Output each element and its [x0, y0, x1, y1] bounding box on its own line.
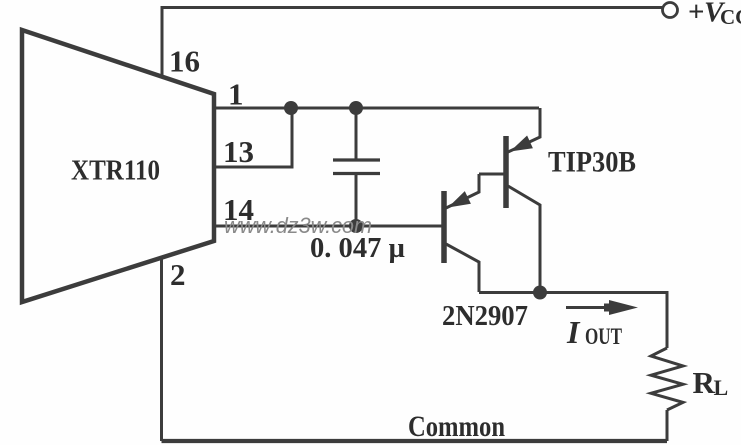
- pin 2 label: [170, 257, 186, 292]
- svg-text:+: +: [688, 0, 705, 28]
- arrow Iout: [566, 300, 638, 315]
- pin 16 label: [169, 44, 200, 79]
- svg-text:R: R: [693, 365, 716, 400]
- svg-text:1: 1: [228, 77, 244, 112]
- svg-text:XTR110: XTR110: [71, 155, 160, 187]
- label RL: [693, 365, 729, 400]
- svg-text:2: 2: [170, 257, 186, 292]
- wire pin 2 down to common: [160, 258, 163, 441]
- svg-text:Common: Common: [408, 410, 505, 443]
- label 0.047u: [310, 232, 405, 264]
- svg-text:www.dz3w.com: www.dz3w.com: [224, 213, 372, 238]
- wire pin 14 to Q2 base: [214, 225, 442, 228]
- pin 14 label: [223, 192, 254, 227]
- capacitor C1: [333, 108, 380, 226]
- node collectors junction: [533, 286, 547, 300]
- IC U1 XTR110: [22, 30, 214, 302]
- pin 13 label: [223, 134, 254, 169]
- terminal +Vcc: [663, 3, 678, 18]
- label TIP30B: [548, 146, 636, 179]
- svg-text:16: 16: [169, 44, 200, 79]
- wire RL bottom lead: [666, 410, 669, 441]
- node capacitor / pin 14 junction: [349, 219, 363, 233]
- node on pin 1 wire (pin 13 tap): [284, 101, 298, 115]
- label Iout: [566, 314, 622, 350]
- label +Vcc: [688, 0, 741, 29]
- svg-text:L: L: [714, 375, 729, 400]
- transistor Q1 TIP30B: [479, 108, 540, 292]
- svg-text:13: 13: [223, 134, 254, 169]
- wire pin 1 horizontal: [214, 107, 539, 110]
- wire +Vcc top rail: [162, 6, 662, 9]
- pin 1 label: [228, 77, 244, 112]
- svg-text:TIP30B: TIP30B: [548, 146, 636, 179]
- node on pin 1 wire (capacitor tap): [349, 101, 363, 115]
- wire Q2 collector run to junction: [479, 291, 540, 294]
- label XTR110: [71, 155, 160, 187]
- transistor Q2 2N2907: [444, 174, 479, 292]
- label Common: [408, 410, 505, 443]
- wire output node to RL: [540, 293, 667, 349]
- resistor RL: [651, 348, 683, 410]
- watermark www.dz3w.com: [224, 213, 372, 238]
- svg-text:I: I: [566, 314, 581, 350]
- svg-text:OUT: OUT: [585, 324, 622, 349]
- wire pin 16 to +Vcc rail: [161, 6, 164, 78]
- wire common bottom rail: [162, 439, 668, 443]
- label 2N2907: [442, 300, 528, 332]
- wire pin 13 to pin 1 node: [214, 108, 292, 167]
- svg-text:2N2907: 2N2907: [442, 300, 528, 332]
- svg-text:CC: CC: [720, 5, 741, 29]
